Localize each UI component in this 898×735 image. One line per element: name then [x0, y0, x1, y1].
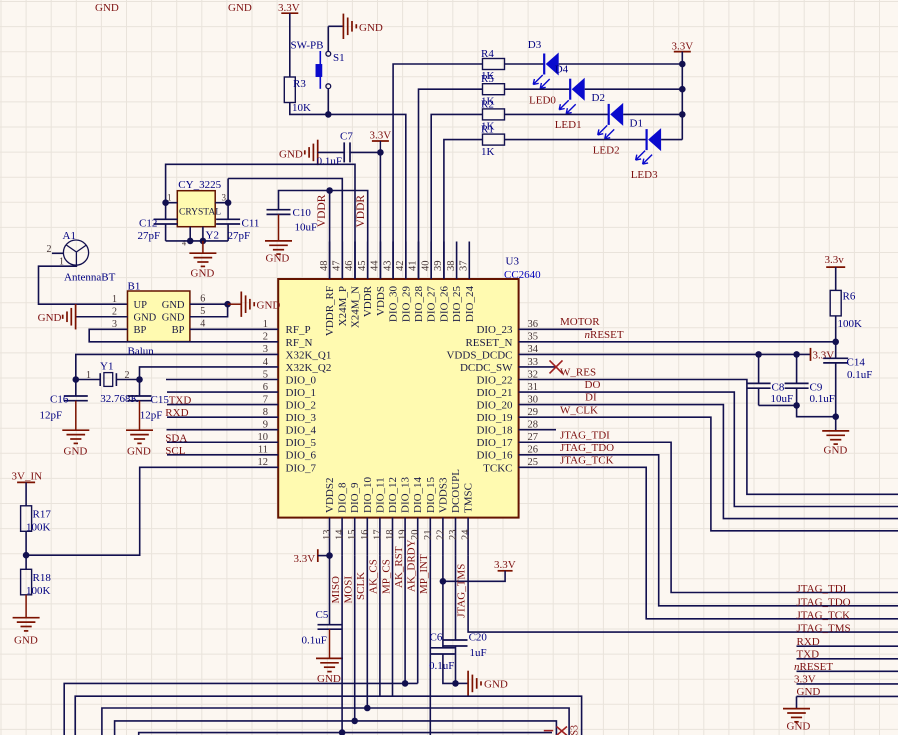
svg-text:R1: R1 — [481, 124, 494, 136]
svg-text:R3: R3 — [293, 78, 306, 90]
svg-text:5: 5 — [263, 369, 268, 380]
wire to C14 — [835, 342, 837, 358]
U3 left pin names — [286, 324, 332, 474]
capacitor C9 0.1uF — [796, 354, 798, 383]
U3 top pin stubs — [330, 242, 470, 280]
svg-text:41: 41 — [408, 261, 419, 272]
svg-text:DIO_12: DIO_12 — [387, 477, 399, 513]
svg-text:nRESET: nRESET — [794, 661, 833, 673]
svg-text:20: 20 — [410, 530, 421, 541]
svg-text:S1: S1 — [333, 52, 345, 64]
wire B1 pin4 to chip pin1 RF_P — [190, 328, 241, 330]
wire chip pin7 TXD — [167, 404, 241, 406]
svg-text:DIO_21: DIO_21 — [476, 387, 512, 399]
wire pin18 MP_CS — [392, 556, 394, 697]
svg-text:44: 44 — [370, 260, 381, 271]
svg-text:S3: S3 — [570, 725, 581, 735]
ground (sideways) right of C20 — [456, 682, 468, 684]
wire 3.3V to R3 — [289, 13, 291, 77]
svg-text:34: 34 — [528, 344, 539, 355]
U3 bottom pin names — [324, 469, 475, 513]
wire crystal pin 1 — [166, 202, 178, 204]
capacitor C20 1uF — [444, 639, 468, 641]
junction C8 top — [755, 351, 762, 358]
svg-text:MP_CS: MP_CS — [380, 559, 392, 594]
svg-text:11: 11 — [258, 445, 268, 456]
svg-text:12: 12 — [258, 457, 269, 468]
wire W_RES pin32 — [556, 380, 898, 495]
wire C14 to ground junction — [835, 363, 837, 431]
ground under C15 — [139, 401, 141, 431]
wire pin17 AK_CS — [379, 556, 381, 697]
wire Y1 right to chip pin4 X32K_Q2 — [140, 367, 242, 380]
svg-text:TMSC: TMSC — [463, 483, 475, 513]
LED D1 — [645, 129, 647, 150]
svg-text:DIO_14: DIO_14 — [412, 476, 424, 513]
svg-text:C20: C20 — [469, 632, 488, 644]
junction at S1 bottom — [325, 111, 332, 118]
svg-text:DO: DO — [585, 379, 601, 391]
wire LED D1 anode to 3.3V rail — [661, 139, 682, 141]
svg-text:4: 4 — [182, 239, 186, 248]
svg-text:3: 3 — [112, 319, 117, 330]
svg-text:R17: R17 — [33, 509, 52, 521]
svg-text:BP: BP — [172, 325, 185, 336]
svg-text:38: 38 — [446, 261, 457, 272]
wire chip pin11 SCL — [167, 454, 241, 456]
svg-text:6: 6 — [263, 382, 268, 393]
svg-text:32.768K: 32.768K — [100, 393, 138, 405]
wire bus rail 1 (left) — [64, 683, 418, 735]
resistor R3 — [284, 77, 295, 103]
svg-text:DIO_28: DIO_28 — [413, 286, 425, 323]
svg-text:C14: C14 — [847, 357, 866, 369]
svg-text:DIO_1: DIO_1 — [286, 387, 317, 399]
svg-text:LED2: LED2 — [593, 145, 620, 157]
ground (sideways) right of B1 — [228, 303, 241, 305]
svg-text:0.1uF: 0.1uF — [847, 369, 872, 381]
svg-text:D3: D3 — [528, 39, 542, 51]
svg-text:100K: 100K — [26, 585, 51, 597]
svg-text:43: 43 — [382, 261, 393, 272]
svg-text:3.3V: 3.3V — [278, 2, 300, 14]
svg-text:C8: C8 — [772, 382, 785, 394]
wire JTAG_TDO pin26 — [556, 455, 898, 606]
svg-text:JTAG_TDI: JTAG_TDI — [797, 583, 847, 595]
wire LED D3 anode to 3.3V rail — [559, 63, 683, 65]
resistor R6 100K — [830, 290, 841, 316]
svg-text:10: 10 — [258, 432, 269, 443]
U3 top pin numbers — [319, 260, 470, 271]
svg-text:1: 1 — [263, 319, 268, 330]
svg-text:DIO_20: DIO_20 — [476, 400, 513, 412]
svg-text:DIO_9: DIO_9 — [349, 482, 361, 513]
svg-text:GND: GND — [266, 253, 290, 265]
svg-text:18: 18 — [385, 530, 396, 541]
svg-text:LED0: LED0 — [529, 94, 556, 106]
svg-text:10uF: 10uF — [295, 222, 318, 234]
wire R6 to nRESET junction — [835, 316, 837, 342]
svg-text:4: 4 — [263, 357, 269, 368]
svg-text:DIO_24: DIO_24 — [464, 286, 476, 323]
svg-text:JTAG_TMS: JTAG_TMS — [455, 564, 467, 618]
svg-text:DIO_22: DIO_22 — [476, 374, 512, 386]
junction B1 pin6 — [224, 301, 231, 308]
ground under C16 — [75, 401, 77, 431]
svg-text:Balun: Balun — [128, 346, 155, 358]
wire TXD stub — [797, 658, 898, 660]
wire R4 to LED D3 — [505, 63, 544, 65]
wire pin14 MISO — [341, 556, 343, 733]
wire chip pin6 DIO_1 — [167, 391, 241, 393]
svg-text:3.3V: 3.3V — [672, 41, 694, 53]
wire pin19 AK_RST — [404, 556, 406, 684]
svg-text:SCL: SCL — [165, 445, 185, 457]
svg-text:DIO_5: DIO_5 — [286, 437, 317, 449]
ground under R18 — [25, 595, 27, 618]
svg-text:DIO_7: DIO_7 — [286, 462, 317, 474]
LED D3 — [543, 54, 545, 75]
wire B1 pin3 to chip pin2 RF_N — [89, 329, 241, 342]
svg-text:C16: C16 — [50, 394, 69, 406]
junction pin13/3.3V — [326, 552, 333, 559]
capacitor C12 27pF — [165, 203, 167, 220]
svg-text:27: 27 — [528, 432, 539, 443]
svg-text:DIO_3: DIO_3 — [286, 412, 317, 424]
svg-text:MOSI: MOSI — [343, 576, 355, 604]
svg-text:TXD: TXD — [797, 649, 820, 661]
svg-text:21: 21 — [423, 530, 434, 541]
svg-text:nRESET: nRESET — [585, 329, 624, 341]
svg-text:GND: GND — [279, 149, 303, 161]
junction Y1 left — [73, 376, 80, 383]
svg-text:GND: GND — [162, 313, 185, 324]
svg-text:33: 33 — [528, 357, 539, 368]
svg-text:31: 31 — [528, 382, 539, 393]
junction VDDR rail — [326, 187, 333, 194]
svg-text:GND: GND — [191, 268, 215, 280]
svg-text:AK_CS: AK_CS — [368, 559, 380, 594]
svg-text:C5: C5 — [316, 609, 329, 621]
junction below C14 — [832, 413, 839, 420]
wire JTAG_TCK pin25 — [556, 467, 898, 618]
wire B1 pins 5/6 to ground — [190, 304, 228, 317]
ground under C5 — [329, 629, 331, 658]
svg-text:UP: UP — [134, 300, 148, 311]
svg-text:DIO_17: DIO_17 — [476, 437, 513, 449]
wire pin15 MOSI — [354, 556, 356, 721]
junction C9 bottom — [793, 402, 800, 409]
svg-text:JTAG_TDI: JTAG_TDI — [560, 430, 610, 442]
svg-text:0.1uF: 0.1uF — [810, 393, 835, 405]
wire crystal pin3 to chip pin 46 — [228, 179, 342, 280]
wire R5 to LED D4 — [505, 88, 570, 90]
svg-text:DIO_11: DIO_11 — [374, 477, 386, 513]
wire pin22 VDDS3 to C6 — [442, 556, 444, 648]
svg-text:DIO_13: DIO_13 — [400, 476, 412, 513]
svg-text:1: 1 — [86, 370, 91, 381]
svg-text:GND: GND — [228, 2, 252, 14]
svg-text:DIO_25: DIO_25 — [451, 286, 463, 323]
svg-text:C7: C7 — [340, 131, 353, 143]
svg-text:1uF: 1uF — [470, 647, 487, 659]
svg-text:3.3V: 3.3V — [294, 553, 316, 565]
crystal bottom pins 4 and 2 — [189, 227, 191, 241]
svg-text:17: 17 — [372, 530, 383, 541]
svg-text:5: 5 — [200, 306, 205, 317]
ground under C10 — [278, 214, 280, 241]
svg-text:RXD: RXD — [165, 407, 188, 419]
U3 bottom pin numbers — [322, 529, 472, 540]
junction LED rail row3 — [679, 111, 686, 118]
resistor R1 1K — [483, 134, 505, 145]
ground (sideways) at S1 — [328, 25, 342, 27]
svg-text:GND: GND — [127, 445, 151, 457]
svg-text:2: 2 — [125, 370, 130, 381]
wire R2 left lead to chip pin — [431, 114, 482, 279]
wire Y1 left to chip pin3 X32K_Q1 — [76, 354, 241, 379]
wire R5 left lead to chip pin — [419, 89, 483, 279]
svg-text:X32K_Q2: X32K_Q2 — [286, 362, 332, 374]
svg-text:VDDR: VDDR — [316, 194, 328, 227]
ground under crystal — [202, 241, 204, 253]
wire nRESET stub — [797, 670, 898, 672]
svg-text:RF_P: RF_P — [286, 324, 311, 336]
wire LED D4 anode to 3.3V rail — [585, 88, 683, 90]
svg-text:DIO_4: DIO_4 — [286, 425, 317, 437]
capacitor C8 10uF — [758, 354, 760, 383]
wire DO pin31 — [556, 392, 898, 506]
svg-text:DIO_2: DIO_2 — [286, 400, 317, 412]
svg-text:W_RES: W_RES — [560, 367, 596, 379]
svg-text:R18: R18 — [33, 572, 52, 584]
svg-text:D1: D1 — [630, 118, 643, 130]
svg-text:DIO_27: DIO_27 — [426, 286, 438, 323]
svg-text:GND: GND — [797, 686, 821, 698]
power port 3.3V left of pin13 — [317, 549, 319, 562]
svg-text:10K: 10K — [292, 102, 311, 114]
svg-text:9: 9 — [263, 420, 268, 431]
wire pin23 DCOUPL to C20 — [455, 556, 457, 640]
svg-text:C9: C9 — [810, 382, 823, 394]
wire JTAG_TDI pin27 — [556, 442, 898, 592]
resistor R2 1K — [483, 109, 505, 120]
wire antenna pin2 stub — [52, 252, 64, 254]
junction crystal pin3 — [225, 199, 232, 206]
junction SCLK/rail3 — [364, 705, 371, 712]
wire pin34 to 3.3V port — [556, 353, 811, 355]
svg-text:JTAG_TCK: JTAG_TCK — [560, 455, 614, 467]
svg-text:GND: GND — [95, 2, 119, 14]
ground below C14 — [822, 430, 849, 432]
svg-text:32: 32 — [528, 369, 539, 380]
wire R1 to LED D1 — [505, 139, 647, 141]
wire antenna pin1 to B1 pin1 — [39, 265, 128, 304]
svg-text:3.3V: 3.3V — [370, 130, 392, 142]
svg-text:MOTOR: MOTOR — [560, 316, 600, 328]
power port 3.3V right of pin34 — [810, 348, 812, 361]
svg-text:GND: GND — [14, 634, 38, 646]
wire MOTOR stub pin36 — [556, 328, 592, 330]
wire bus rail 2 — [75, 696, 581, 735]
svg-text:DIO_26: DIO_26 — [438, 286, 450, 323]
svg-text:LED3: LED3 — [631, 169, 658, 181]
ground (sideways) left of B1 — [75, 304, 77, 329]
svg-text:JTAG_TMS: JTAG_TMS — [797, 623, 851, 635]
svg-text:16: 16 — [360, 530, 371, 541]
svg-text:35: 35 — [528, 332, 539, 343]
svg-text:6: 6 — [200, 294, 205, 305]
svg-text:12pF: 12pF — [140, 410, 163, 422]
svg-text:7: 7 — [263, 394, 268, 405]
svg-text:C6: C6 — [430, 631, 443, 643]
svg-text:14: 14 — [335, 529, 346, 540]
U3 right pin names — [446, 324, 513, 474]
svg-text:24: 24 — [461, 529, 472, 540]
svg-text:VDDR_RF: VDDR_RF — [324, 286, 336, 336]
wire chip pin12 DIO_7 to divider — [26, 467, 241, 555]
svg-text:48: 48 — [319, 261, 330, 272]
no-connect X at rail5 end — [544, 730, 553, 732]
svg-text:SW-PB: SW-PB — [291, 40, 324, 52]
svg-text:47: 47 — [332, 261, 343, 272]
svg-text:DIO_6: DIO_6 — [286, 450, 317, 462]
svg-text:10uF: 10uF — [771, 393, 794, 405]
svg-text:DCDC_SW: DCDC_SW — [460, 362, 513, 374]
junction crystal pin4 — [187, 238, 194, 245]
wire 3.3V stub — [797, 683, 898, 685]
wire R1 left lead to chip pin — [444, 140, 483, 279]
svg-text:R2: R2 — [481, 98, 494, 110]
junction R6/nRESET — [832, 339, 839, 346]
svg-text:AntennaBT: AntennaBT — [64, 272, 116, 284]
wire chip pin8 RXD — [167, 416, 241, 418]
junction MOSI/rail4 — [351, 718, 358, 725]
svg-text:37: 37 — [459, 261, 470, 272]
svg-text:CY_3225: CY_3225 — [178, 179, 221, 191]
svg-text:C10: C10 — [293, 207, 312, 219]
svg-text:AK_RST: AK_RST — [393, 546, 405, 588]
svg-text:JTAG_TCK: JTAG_TCK — [797, 609, 851, 621]
svg-text:DIO_0: DIO_0 — [286, 374, 317, 386]
svg-text:W_CLK: W_CLK — [560, 404, 598, 416]
junction pin22/3.3V — [440, 578, 447, 585]
capacitor C6 0.1uF — [431, 647, 455, 649]
capacitor C15 12pF — [139, 380, 141, 397]
LED D2 — [608, 104, 610, 125]
wire C20 bottom — [455, 646, 457, 683]
wire pin13 VDDS2 to C5 — [329, 556, 331, 625]
svg-text:Y1: Y1 — [100, 361, 113, 373]
capacitor C16 12pF — [75, 380, 77, 397]
svg-text:28: 28 — [528, 420, 539, 431]
svg-text:12pF: 12pF — [40, 410, 63, 422]
wire C7 to 3.3V junction — [350, 151, 380, 153]
capacitor C14 0.1uF — [823, 357, 848, 359]
svg-text:3: 3 — [263, 344, 268, 355]
svg-text:2: 2 — [112, 307, 117, 318]
svg-text:40: 40 — [420, 261, 431, 272]
wire R4 left lead to chip pin — [393, 64, 482, 279]
svg-text:MISO: MISO — [330, 576, 342, 604]
wire bus rail 3 — [102, 708, 569, 735]
svg-text:GND: GND — [787, 720, 811, 732]
svg-text:GND: GND — [824, 445, 848, 457]
svg-text:R6: R6 — [843, 291, 856, 303]
svg-text:JTAG_TDO: JTAG_TDO — [797, 596, 851, 608]
svg-text:R4: R4 — [481, 48, 494, 60]
svg-text:30: 30 — [528, 394, 539, 405]
svg-text:15: 15 — [347, 530, 358, 541]
svg-text:0.1uF: 0.1uF — [317, 156, 342, 168]
wire ground to C7 — [318, 151, 345, 153]
wire R3 bottom to pin41 corner — [290, 103, 406, 280]
svg-text:DIO_15: DIO_15 — [425, 476, 437, 513]
svg-text:VDDS_DCDC: VDDS_DCDC — [446, 349, 512, 361]
svg-text:36: 36 — [528, 319, 539, 330]
wire GND stub — [797, 695, 898, 697]
junction LED rail row1 — [679, 61, 686, 68]
wire R17 to R18 — [25, 531, 27, 569]
junction C9 top — [793, 351, 800, 358]
svg-text:GND: GND — [162, 300, 185, 311]
wire chip pin5 DIO_0 — [166, 379, 241, 381]
wire C6 bottom to ground rail — [443, 654, 456, 683]
svg-text:U3: U3 — [506, 256, 520, 268]
U3 left pin stubs — [241, 329, 278, 467]
svg-text:100K: 100K — [26, 522, 51, 534]
svg-text:SDA: SDA — [165, 432, 187, 444]
U3 right pin stubs — [519, 329, 556, 467]
junction divider — [23, 552, 30, 559]
svg-text:R5: R5 — [481, 73, 494, 85]
svg-text:CRYSTAL: CRYSTAL — [179, 208, 221, 218]
svg-text:DIO_16: DIO_16 — [476, 450, 513, 462]
svg-text:DIO_10: DIO_10 — [362, 476, 374, 513]
svg-text:GND: GND — [257, 299, 281, 311]
svg-text:MP_INT: MP_INT — [418, 554, 430, 594]
svg-text:DIO_19: DIO_19 — [476, 412, 513, 424]
svg-text:DIO_23: DIO_23 — [476, 324, 513, 336]
svg-text:3.3V: 3.3V — [794, 674, 816, 686]
svg-text:22: 22 — [435, 530, 446, 541]
junction crystal pin2 — [200, 238, 207, 245]
svg-text:Y2: Y2 — [206, 229, 219, 241]
svg-text:RF_N: RF_N — [286, 337, 313, 349]
svg-text:VDDS3: VDDS3 — [437, 477, 449, 513]
svg-text:GND: GND — [64, 445, 88, 457]
wire crystal pin 3 — [215, 202, 228, 204]
svg-text:RESET_N: RESET_N — [465, 337, 512, 349]
svg-text:X32K_Q1: X32K_Q1 — [286, 349, 332, 361]
resistor R18 100K — [21, 569, 32, 595]
wire pin20 AK_DRDY — [417, 556, 419, 684]
svg-text:GND: GND — [38, 312, 62, 324]
svg-text:42: 42 — [395, 261, 406, 272]
svg-text:2: 2 — [47, 244, 52, 255]
capacitor C11 27pF — [227, 203, 229, 220]
svg-text:C11: C11 — [242, 217, 260, 229]
ground bottom right — [783, 708, 810, 710]
U3 top pin names — [324, 285, 476, 336]
svg-text:3.3V: 3.3V — [494, 559, 516, 571]
svg-text:AK_DRDY: AK_DRDY — [406, 539, 418, 592]
svg-text:26: 26 — [528, 445, 539, 456]
U3 bottom pin stubs — [330, 518, 469, 556]
svg-text:DCOUPL: DCOUPL — [450, 469, 462, 513]
svg-text:LED1: LED1 — [555, 119, 582, 131]
U3 left pin numbers — [258, 319, 269, 468]
